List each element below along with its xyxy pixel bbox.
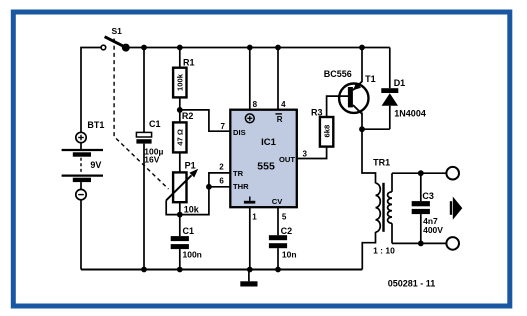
svg-text:7: 7 xyxy=(221,122,226,131)
pin 5 wire xyxy=(277,207,279,235)
svg-text:400V: 400V xyxy=(423,225,443,235)
wire secondary bottom to terminal xyxy=(392,242,446,244)
wire secondary top to terminal xyxy=(392,172,446,174)
resistor R1 xyxy=(173,45,194,98)
svg-text:T1: T1 xyxy=(365,74,376,84)
wire P1 wiper to bottom node xyxy=(166,200,180,214)
resistor R2 xyxy=(173,111,193,153)
svg-text:C2: C2 xyxy=(281,226,293,236)
capacitor C3 xyxy=(412,170,444,246)
IC1 internal ground pin 1 xyxy=(244,197,255,204)
wire node to pin 7 xyxy=(180,110,231,131)
svg-text:4: 4 xyxy=(281,100,286,109)
wire R1 to R2, node xyxy=(179,97,181,122)
terminal bottom xyxy=(446,237,459,250)
IC1 plus symbol pin 8 xyxy=(245,114,254,123)
svg-text:47 Ω: 47 Ω xyxy=(176,129,185,146)
svg-text:TR1: TR1 xyxy=(373,157,390,167)
svg-text:050281 - 11: 050281 - 11 xyxy=(388,278,436,288)
svg-text:P1: P1 xyxy=(185,161,196,171)
node P1 bottom xyxy=(177,212,183,218)
bottom rail xyxy=(81,268,362,270)
switch S1 xyxy=(101,26,130,51)
svg-text:C1: C1 xyxy=(183,226,195,236)
svg-text:R2: R2 xyxy=(182,111,194,121)
svg-text:OUT: OUT xyxy=(279,155,295,164)
svg-text:R: R xyxy=(277,115,283,124)
pin 8 wire xyxy=(249,48,251,110)
wire R3 to base xyxy=(327,96,349,117)
svg-text:BC556: BC556 xyxy=(324,69,352,79)
node R1/R2/pin7 xyxy=(177,107,183,113)
diode D1 1N4004 xyxy=(381,48,426,130)
pin 1 wire xyxy=(249,207,251,269)
output arrow xyxy=(450,197,463,220)
svg-text:8: 8 xyxy=(253,100,258,109)
svg-text:D1: D1 xyxy=(394,78,406,88)
svg-text:DIS: DIS xyxy=(233,128,246,137)
svg-text:10n: 10n xyxy=(282,250,297,260)
svg-text:IC1: IC1 xyxy=(261,137,277,148)
collector wire xyxy=(361,113,363,130)
svg-text:10k: 10k xyxy=(184,204,200,214)
svg-text:R3: R3 xyxy=(311,107,323,117)
svg-text:6k8: 6k8 xyxy=(322,125,331,138)
dashed link S1 to P1 xyxy=(114,39,168,190)
svg-text:C1: C1 xyxy=(149,119,161,129)
battery BT1 xyxy=(62,120,105,270)
wire node to TR/THR vertical xyxy=(180,173,231,215)
svg-text:3: 3 xyxy=(303,150,308,159)
svg-text:1 : 10: 1 : 10 xyxy=(373,246,395,256)
svg-text:9V: 9V xyxy=(90,160,101,170)
svg-text:6: 6 xyxy=(219,176,224,185)
svg-text:100k: 100k xyxy=(176,73,185,91)
potentiometer P1 xyxy=(166,161,200,215)
wire collector to D1 bottom xyxy=(362,128,390,130)
IC1 reset R-bar pin 4 xyxy=(275,114,282,124)
svg-text:TR: TR xyxy=(233,169,244,178)
transistor T1 BC556 xyxy=(324,69,376,114)
svg-text:CV: CV xyxy=(272,197,283,206)
wire R2 to P1 xyxy=(179,152,181,172)
wire top rail xyxy=(126,47,390,49)
emitter wire to rail xyxy=(361,48,363,83)
svg-text:BT1: BT1 xyxy=(87,120,104,130)
terminal top xyxy=(446,167,459,180)
svg-text:2: 2 xyxy=(219,162,224,171)
svg-text:5: 5 xyxy=(282,213,287,222)
svg-text:THR: THR xyxy=(233,182,249,191)
wire P1 bottom xyxy=(179,202,181,214)
ground xyxy=(240,270,257,287)
capacitor C2 xyxy=(269,226,297,272)
op-amp/timer IC1 555 xyxy=(230,110,296,208)
pin 4 wire xyxy=(277,48,279,110)
svg-text:100n: 100n xyxy=(183,250,202,260)
transformer TR1 xyxy=(362,129,395,269)
wire THR branch xyxy=(209,186,230,188)
capacitor C1 100u xyxy=(136,45,163,273)
svg-text:16V: 16V xyxy=(144,155,159,165)
resistor R3 xyxy=(311,107,333,146)
svg-text:1: 1 xyxy=(252,213,257,222)
wire battery top to switch xyxy=(81,48,101,133)
capacitor C1 100n xyxy=(171,215,202,273)
svg-text:R1: R1 xyxy=(183,57,195,67)
svg-text:555: 555 xyxy=(257,161,275,173)
node THR junction xyxy=(206,184,212,190)
svg-text:1N4004: 1N4004 xyxy=(394,108,426,118)
svg-text:C3: C3 xyxy=(422,191,434,201)
pin 3 OUT wire xyxy=(297,147,327,159)
svg-text:S1: S1 xyxy=(112,26,123,36)
